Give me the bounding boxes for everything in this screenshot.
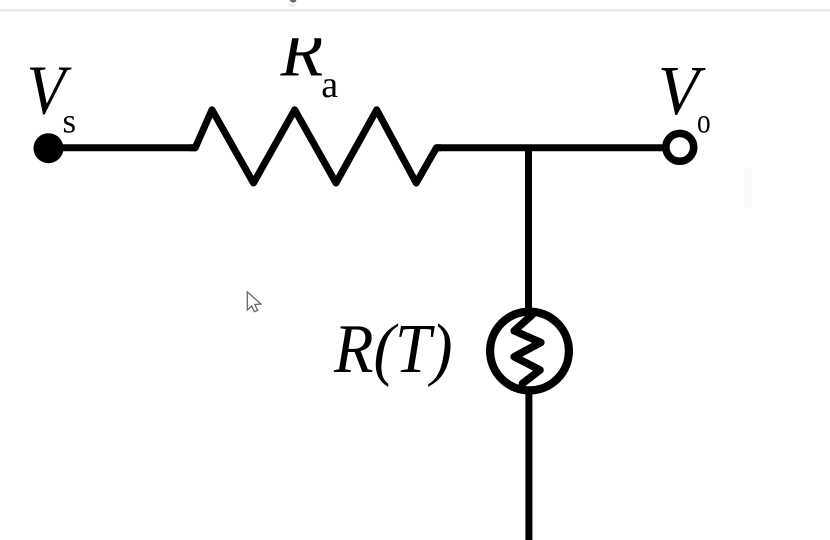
- wire from tap down to thermistor: [525, 145, 532, 310]
- wire from resistor to Vo: [436, 144, 664, 151]
- svg-text:s: s: [63, 102, 77, 141]
- node Vs terminal dot: [34, 133, 64, 163]
- svg-text:R(T): R(T): [333, 311, 452, 388]
- svg-text:a: a: [321, 64, 338, 106]
- node Vo open terminal: [666, 133, 694, 161]
- resistor R_a zigzag: [190, 110, 441, 183]
- mouse cursor: [247, 292, 261, 312]
- wire from thermistor to bottom edge: [525, 392, 532, 540]
- thermistor R(T) circle: [490, 312, 569, 391]
- faint artifact band: [744, 168, 752, 208]
- faint horizontal rule (video crop line): [0, 9, 830, 11]
- wire from Vs to resistor: [55, 144, 196, 151]
- thermistor internal zigzag: [514, 315, 541, 384]
- cropped glyph remnant at top: [290, 0, 296, 3]
- cropped glyph remnant smudge: [289, 4, 296, 7]
- svg-text:o: o: [697, 102, 711, 141]
